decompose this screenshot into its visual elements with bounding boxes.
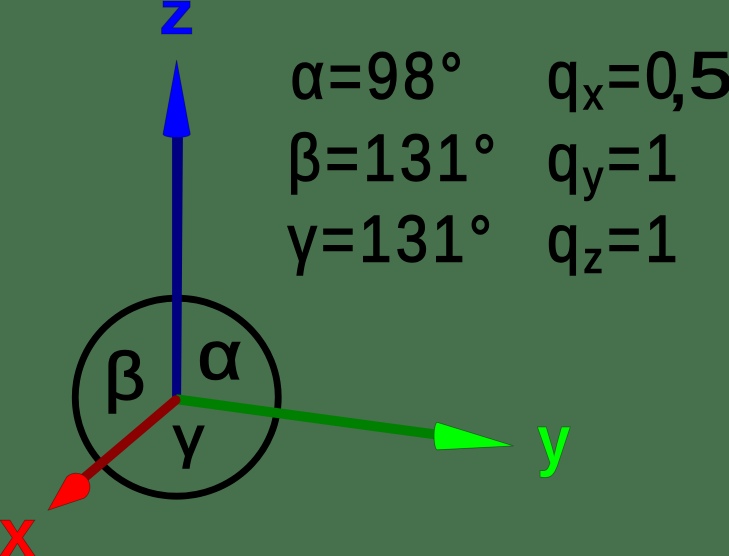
angle label gamma (between x and y) [173, 405, 204, 470]
text line 3 right: qz = 1 [547, 203, 682, 282]
svg-text:qx=0: qx=0 [547, 40, 682, 119]
svg-text:γ: γ [173, 405, 204, 470]
svg-text:x: x [0, 496, 36, 556]
x axis arrowhead [48, 473, 90, 510]
svg-text:qy=1: qy=1 [547, 122, 682, 201]
z axis label [159, 0, 195, 48]
text line 1 right: qx = 0,5 [547, 40, 682, 119]
svg-text:α=98°: α=98° [291, 40, 467, 113]
comma and 5 of 0,5 (clipped at right edge) [667, 39, 729, 116]
svg-text:β: β [104, 338, 145, 413]
y axis label [537, 401, 571, 477]
svg-text:y: y [537, 401, 571, 477]
x axis shaft [81, 396, 179, 481]
svg-text:qz=1: qz=1 [547, 203, 682, 282]
angle label beta (between z and x) [104, 338, 145, 413]
svg-text:,5: ,5 [667, 39, 729, 116]
svg-text:γ=131°: γ=131° [288, 203, 496, 276]
z axis shaft [172, 138, 183, 397]
text line 1 left: alpha = 98 deg [291, 40, 467, 113]
x axis label [0, 496, 36, 556]
svg-text:α: α [198, 318, 242, 394]
text line 2 left: beta = 131 deg [288, 122, 501, 195]
x axis shaft round cap at origin [171, 395, 180, 404]
y axis shaft [177, 394, 435, 439]
svg-text:β=131°: β=131° [288, 122, 501, 195]
angle circle around origin [75, 298, 278, 496]
svg-text:z: z [159, 0, 195, 48]
y axis arrowhead [434, 422, 513, 449]
text line 3 left: gamma = 131 deg [288, 203, 496, 276]
z axis arrowhead [163, 60, 190, 138]
angle label alpha (between z and y) [198, 318, 242, 394]
text line 2 right: qy = 1 [547, 122, 682, 201]
